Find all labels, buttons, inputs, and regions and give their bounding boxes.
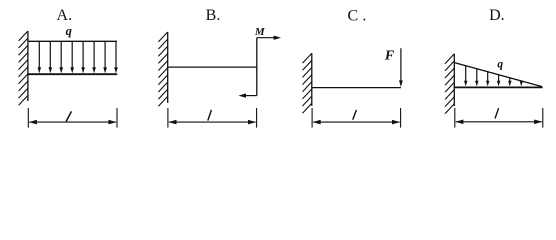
dimension line l (A) [28,108,117,128]
svg-text:B.: B. [206,7,221,24]
label l (C) [353,110,356,119]
moment arrow top, points right (B) [257,36,281,40]
beam A [27,73,117,75]
beam B [168,66,257,68]
dimension line l (D) [455,108,543,128]
svg-text:A.: A. [57,7,73,24]
svg-text:.: . [362,7,366,24]
distributed load arrows (A) [38,41,118,73]
svg-text:D.: D. [489,7,505,24]
wall support D [445,54,454,114]
moment couple vertical line (B) [256,38,258,96]
svg-text:C: C [347,7,358,24]
label l (B) [208,110,211,120]
svg-text:q: q [497,59,503,71]
svg-text:M: M [254,26,266,38]
distributed load q line (A) [28,40,117,42]
dimension line l (B) [168,108,257,128]
label l (D) [495,109,498,118]
beam C [312,87,401,89]
svg-text:q: q [66,24,72,38]
force F arrow (C) [399,48,403,87]
triangular load arrows (D) [464,66,523,87]
dimension line l (C) [312,108,401,128]
svg-text:F: F [384,48,395,63]
label l (A) [66,112,71,121]
beam D [454,86,543,88]
moment arrow bottom, points left (B) [238,93,256,97]
triangular load slope line (D) [455,63,542,87]
wall support B [158,32,167,106]
wall support C [303,53,312,113]
wall support A [19,31,28,105]
